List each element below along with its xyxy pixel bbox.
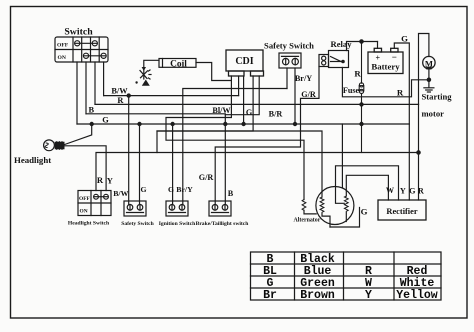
svg-text:Battery: Battery xyxy=(371,62,400,72)
node motor ground junction xyxy=(427,78,430,81)
label Alternator xyxy=(294,218,321,224)
label G (alternator) xyxy=(361,207,368,217)
svg-text:W: W xyxy=(386,186,395,195)
svg-text:B: B xyxy=(228,189,234,198)
battery BT1 box xyxy=(368,48,403,73)
svg-text:Coil: Coil xyxy=(170,59,187,69)
switch SW1 OFF contacts xyxy=(75,41,98,46)
switch SW1 OFF/ON labels xyxy=(57,43,69,61)
wire switch pin1 to G bus xyxy=(76,62,78,124)
wire safety pin2 to G bus xyxy=(294,68,296,124)
svg-text:Fuse: Fuse xyxy=(343,86,360,95)
svg-text:Headlight Switch: Headlight Switch xyxy=(68,221,110,227)
label G (ignition) xyxy=(168,185,174,194)
svg-text:R: R xyxy=(354,68,361,78)
wire Br/Y ignition link xyxy=(183,89,287,205)
label G xyxy=(102,115,109,124)
node fuse-R junction xyxy=(360,103,363,106)
label Battery xyxy=(371,62,400,72)
wire headlight to headlight switch Y xyxy=(64,146,106,191)
alternator pickup coil xyxy=(302,200,306,211)
node G junction CDI xyxy=(242,122,245,125)
label Coil xyxy=(170,59,187,69)
wire safety pin1 to Br/Y link xyxy=(286,68,288,89)
label B/W xyxy=(111,87,128,96)
wire switch pin4 to B/W bus xyxy=(103,62,105,96)
wire rectifier W input xyxy=(346,175,388,200)
label Fuse xyxy=(343,86,360,95)
wire alternator frame tap xyxy=(341,124,343,188)
wire switch pin3 to R bus xyxy=(94,62,96,104)
starting motor M1 xyxy=(423,56,435,68)
wire CDI pin5 B/R run xyxy=(225,76,259,115)
wire G/R brake run xyxy=(215,67,319,205)
fuse F1 xyxy=(359,42,364,153)
wire B bus xyxy=(86,114,225,205)
svg-text:Headlight: Headlight xyxy=(14,155,51,165)
svg-text:Bl/W: Bl/W xyxy=(212,106,231,115)
alternator lighting coil xyxy=(344,196,348,211)
svg-text:G: G xyxy=(140,185,146,194)
wire alternator bottom G link xyxy=(330,208,360,228)
svg-text:Y: Y xyxy=(365,289,372,302)
node fuse top junction xyxy=(360,40,363,43)
node G junction ignition xyxy=(171,122,174,125)
svg-text:Switch: Switch xyxy=(64,27,93,38)
wire battery minus G lead xyxy=(394,43,409,200)
wire relay bottom R to motor xyxy=(342,68,429,97)
wire rectifier Y input xyxy=(336,166,399,204)
rectifier D1 box xyxy=(378,200,426,220)
svg-text:G/R: G/R xyxy=(199,173,214,182)
label battery plus xyxy=(376,54,381,63)
wire G to safety connector xyxy=(139,124,141,205)
svg-text:B: B xyxy=(89,106,95,115)
wire R headlight-switch long run xyxy=(96,153,419,191)
label Bl/W xyxy=(212,106,231,115)
headlight bulb E1 xyxy=(44,140,55,151)
spark plug electrode arrow up xyxy=(142,80,150,86)
label R xyxy=(117,96,124,105)
svg-text:ON: ON xyxy=(58,55,66,61)
svg-text:G: G xyxy=(168,185,174,194)
svg-text:Yellow: Yellow xyxy=(396,289,438,302)
node G bus end xyxy=(293,122,296,125)
wire R bus xyxy=(95,103,419,105)
relay K1 label xyxy=(330,39,352,49)
svg-text:G: G xyxy=(361,207,368,217)
headlight connector blob xyxy=(55,142,64,149)
label G (safety connector) xyxy=(140,185,146,194)
svg-text:Br/Y: Br/Y xyxy=(295,74,312,83)
label R (headlight switch) xyxy=(97,175,104,185)
alternator charge coil xyxy=(320,197,324,212)
switch SW1 box xyxy=(55,37,108,62)
svg-text:G: G xyxy=(401,34,408,44)
legend table text xyxy=(263,253,438,302)
wire motor to ground xyxy=(428,69,430,88)
svg-text:Safety Switch: Safety Switch xyxy=(121,221,154,227)
label W xyxy=(386,186,395,195)
wire relay top to battery plus xyxy=(347,42,378,51)
ignition switch connector J2 xyxy=(166,201,188,216)
wire G bus xyxy=(77,123,409,125)
label Ignition Switch caption xyxy=(159,221,196,227)
wire charge coil feed xyxy=(157,131,322,197)
label G (rectifier) xyxy=(409,186,416,195)
label R (rectifier) xyxy=(418,186,424,195)
label Y (headlight switch) xyxy=(107,175,114,185)
label G/R (brake) xyxy=(199,173,214,182)
ground symbol xyxy=(424,88,434,92)
node B/W junction xyxy=(127,94,130,97)
node G-headlight junction xyxy=(90,122,93,125)
label Starting xyxy=(422,91,453,101)
wire CDI pin3 to G bus xyxy=(243,76,245,124)
label CDI xyxy=(235,56,253,67)
spark plug dot xyxy=(135,81,137,83)
svg-text:G: G xyxy=(246,108,253,117)
ignition coil T1 box xyxy=(159,59,196,68)
label R (relay) xyxy=(354,68,361,78)
svg-text:Relay: Relay xyxy=(330,39,352,49)
switch SW1 label xyxy=(64,27,93,38)
label Br/Y (ignition) xyxy=(176,185,193,194)
svg-text:ON: ON xyxy=(80,209,88,215)
label motor xyxy=(422,108,445,118)
svg-text:Starting: Starting xyxy=(422,91,453,101)
svg-text:Br/Y: Br/Y xyxy=(176,185,193,194)
headlight switch OFF/ON labels xyxy=(79,196,90,215)
label Headlight xyxy=(14,155,51,165)
motor brush block xyxy=(426,67,431,70)
wire coil to CDI xyxy=(196,63,231,81)
wire CDI pin2 to B/W bus xyxy=(238,76,240,96)
svg-text:G: G xyxy=(102,115,109,124)
headlight switch contacts xyxy=(94,194,109,199)
spark plug spark star xyxy=(140,70,151,80)
alternator G1 stator circle xyxy=(316,187,354,225)
wire B/W bus xyxy=(104,95,239,97)
wire CDI pin4 staircase to charge coil xyxy=(157,76,253,153)
svg-text:Y: Y xyxy=(400,186,406,195)
svg-text:Br: Br xyxy=(263,289,277,302)
svg-text:OFF: OFF xyxy=(57,43,69,49)
label B/R xyxy=(269,109,283,118)
wire rectifier R vertical xyxy=(418,104,420,200)
wire charge coil bottom link xyxy=(322,213,330,227)
svg-text:OFF: OFF xyxy=(79,196,90,202)
svg-text:motor: motor xyxy=(422,108,445,118)
label Br/Y (safety) xyxy=(295,74,312,83)
label G (CDI) xyxy=(246,108,253,117)
safety switch S2 label xyxy=(264,41,314,51)
relay K1 box xyxy=(319,51,349,68)
svg-text:Safety Switch: Safety Switch xyxy=(264,41,314,51)
svg-text:Alternator: Alternator xyxy=(294,218,321,224)
label Rectifier xyxy=(386,207,417,216)
node G-brake junction xyxy=(224,122,227,125)
label B/W (safety connector) xyxy=(113,189,128,198)
wire G to ignition connector xyxy=(172,124,174,205)
wire pickup coil to frame xyxy=(304,210,316,214)
spark plug arrow down xyxy=(142,67,146,71)
wire CDI pin1 Bl/W staircase to pickup xyxy=(166,76,304,200)
wire B/W to safety connector xyxy=(128,96,130,205)
safety switch S2 box xyxy=(279,53,301,68)
CDI unit U1 box xyxy=(226,50,264,76)
svg-text:B/R: B/R xyxy=(269,109,283,118)
label battery minus xyxy=(392,52,397,62)
svg-text:Rectifier: Rectifier xyxy=(386,207,417,216)
label Headlight Switch caption xyxy=(68,221,110,227)
headlight switch SW2 box xyxy=(78,191,111,216)
svg-text:R: R xyxy=(97,175,104,185)
label Safety Switch caption xyxy=(121,221,154,227)
node G junction safety xyxy=(138,122,141,125)
svg-text:Brown: Brown xyxy=(300,289,335,302)
svg-text:G/R: G/R xyxy=(301,90,316,99)
label Brake/Taillight switch caption xyxy=(196,221,250,227)
label B (brake) xyxy=(228,189,234,198)
wire battery plus lead xyxy=(377,42,379,49)
safety switch connector J1 xyxy=(124,201,146,216)
label M (motor) xyxy=(425,59,433,69)
wire switch pin2 to B bus xyxy=(85,62,87,114)
svg-text:B/W: B/W xyxy=(113,189,128,198)
label R (motor) xyxy=(397,87,404,97)
wire coil to spark plug xyxy=(144,60,159,67)
wire motor hairpin xyxy=(419,34,429,105)
svg-text:Y: Y xyxy=(107,175,114,185)
svg-text:R: R xyxy=(117,96,124,105)
svg-text:R: R xyxy=(397,87,404,97)
svg-text:B/W: B/W xyxy=(111,87,128,96)
node R-rectifier junction xyxy=(417,151,420,154)
wire headlight feed xyxy=(64,124,92,145)
svg-text:G: G xyxy=(409,186,416,195)
wire lighting coil bottom stub xyxy=(345,212,347,221)
label Y xyxy=(400,186,406,195)
node fuse-B/R junction xyxy=(360,122,363,125)
brake/taillight switch connector J3 xyxy=(209,201,231,216)
svg-text:R: R xyxy=(418,186,424,195)
legend table frame xyxy=(251,252,442,300)
label B xyxy=(89,106,95,115)
label G/R (relay) xyxy=(301,90,316,99)
svg-text:Ignition Switch: Ignition Switch xyxy=(159,221,196,227)
svg-text:CDI: CDI xyxy=(235,56,253,67)
switch SW1 ON contacts xyxy=(83,53,106,58)
svg-text:Brake/Taillight switch: Brake/Taillight switch xyxy=(196,221,250,227)
label G (battery) xyxy=(401,34,408,44)
